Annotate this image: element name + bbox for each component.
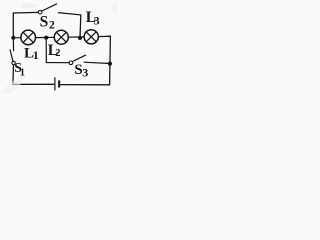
svg-text:2: 2	[55, 48, 60, 59]
wire: left wire from node A up and top rail to switch S2	[13, 12, 38, 37]
node C junction dot (middle rail / S3 branch)	[44, 36, 48, 40]
wire: lamp L1 to lamp L2 through node C	[36, 36, 54, 38]
label S2	[40, 13, 55, 31]
label S3	[74, 62, 88, 79]
node D junction dot (S3 branch / right wire)	[108, 62, 112, 66]
svg-text:3: 3	[82, 66, 88, 80]
svg-text:S: S	[40, 13, 49, 30]
label L2	[48, 42, 61, 59]
switch S2 (open, on top rail)	[38, 4, 57, 14]
scan background tint	[0, 0, 117, 95]
svg-text:3: 3	[94, 14, 100, 28]
wire: lamp L3 to top-right corner and right wire down to bottom rail	[99, 36, 111, 85]
label L1	[24, 46, 39, 63]
lamp L2	[54, 30, 68, 44]
wire: S3 branch from node C down and right to switch S3	[46, 38, 69, 63]
wire: switch S3 to node D on right wire	[84, 62, 110, 63]
wire: node A to lamp L1	[13, 37, 20, 39]
label L3	[86, 9, 100, 28]
wire: lamp L2 to lamp L3 through node B	[69, 36, 84, 38]
switch S1 (open, on left wire)	[10, 49, 15, 64]
lamp L3	[84, 30, 98, 44]
switch S3 (open, on branch)	[69, 55, 86, 65]
node A junction dot (left wire / middle rail)	[11, 36, 15, 40]
wire: battery to bottom-right corner	[60, 84, 110, 86]
wire: switch S1 down and bottom rail to battery	[13, 65, 54, 85]
lamp L1	[21, 30, 36, 45]
wire: node A down to switch S1	[12, 38, 14, 51]
wire: top rail right of S2 down to node B	[58, 13, 81, 38]
label S1	[14, 60, 25, 79]
battery cell	[55, 77, 60, 90]
scan smudge top-left	[20, 3, 38, 9]
svg-text:2: 2	[49, 20, 55, 32]
node B junction dot (middle rail / top-branch drop)	[78, 36, 82, 40]
svg-text:1: 1	[33, 48, 39, 62]
scan smudge right-edge	[112, 2, 117, 14]
scan smudge bottom-left	[2, 76, 26, 94]
